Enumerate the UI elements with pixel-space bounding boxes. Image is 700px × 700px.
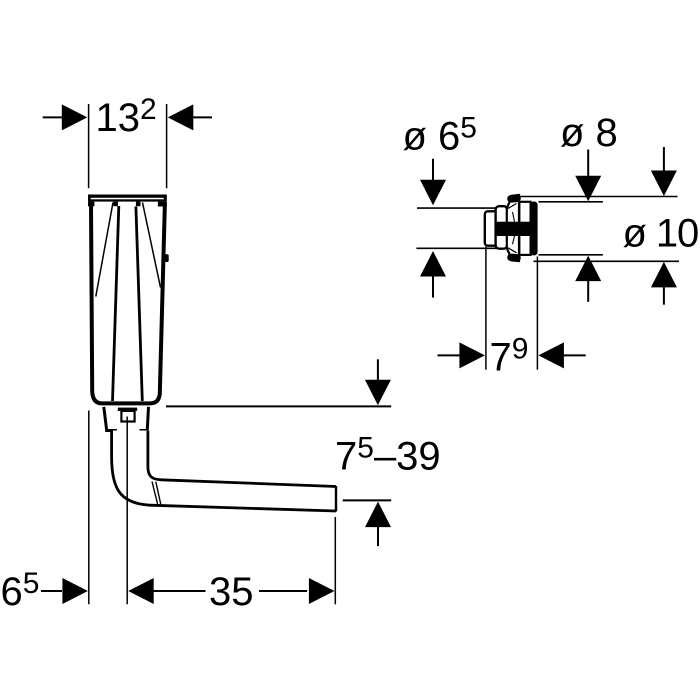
fitting disc	[530, 202, 537, 256]
fitting bell rib 4	[513, 236, 515, 244]
dia 8 bottom line	[539, 254, 603, 256]
dimension 75-39 down arrow	[365, 380, 391, 406]
dia 8 up arrow stem	[587, 281, 589, 302]
extension line cistern left	[88, 411, 90, 605]
svg-text:35: 35	[209, 570, 254, 614]
flush bend inner wall	[148, 431, 336, 487]
dimension 6-5 arrow	[62, 578, 88, 604]
cistern inner tab left	[113, 202, 118, 207]
svg-text:ø 10: ø 10	[623, 211, 699, 255]
dimension 7-9 right line	[563, 354, 585, 356]
dia 10 up arrow	[651, 262, 677, 288]
dimension 75-39 up arrow	[365, 502, 391, 527]
dimension 13-2 right line	[193, 116, 212, 118]
dimension 7-9 left extension line	[485, 247, 487, 370]
dia 8 down arrow	[575, 176, 601, 202]
fitting bell	[507, 195, 519, 261]
fitting bell top cap	[511, 195, 517, 203]
dimension 6-5 line	[41, 590, 62, 592]
dia 8 down arrow stem	[587, 150, 589, 177]
dimension 13-2 left arrow	[62, 104, 88, 130]
cistern inner tab right	[136, 202, 141, 207]
dimension 35 right line	[259, 590, 307, 592]
cistern interior tube left	[113, 206, 119, 401]
fitting bell bottom cap	[511, 254, 517, 262]
dimension 35 right arrow	[309, 578, 335, 604]
dia 10 up arrow stem	[663, 287, 665, 305]
dimension 75-39 bottom reference line	[343, 499, 392, 501]
cistern lid right lip	[158, 202, 167, 207]
fitting bell rib 2	[508, 248, 517, 253]
fitting centre band	[496, 222, 532, 236]
svg-text:75–39: 75–39	[335, 432, 441, 479]
dimension 75-39 down arrow stem	[377, 359, 379, 380]
cistern side clip	[165, 254, 169, 262]
cistern interior diagonal right	[143, 203, 161, 288]
dimension 13-2 right extension line	[166, 104, 168, 188]
dia 10 bottom line	[534, 260, 680, 262]
outlet funnel left	[104, 407, 107, 430]
flush bend fill	[112, 431, 336, 512]
dimension 7-9 right extension line	[536, 257, 538, 370]
cistern lid	[88, 195, 167, 202]
cistern interior diagonal left	[96, 203, 113, 297]
outlet shoulder right	[140, 429, 149, 432]
outlet stub	[121, 411, 134, 422]
dimension 13-2 left line	[43, 116, 63, 118]
dia 6-5 up arrow stem	[432, 276, 434, 297]
fitting washer	[519, 202, 530, 255]
dimension 13-2 right arrow	[168, 104, 194, 130]
dimension 7-9 left arrow	[459, 342, 485, 368]
flush bend outer wall	[112, 431, 336, 512]
extension line outlet centre	[126, 417, 128, 605]
dia 6-5 up arrow	[420, 251, 446, 277]
outlet flange bar	[118, 408, 137, 411]
dimension 7-9 left line	[438, 354, 460, 356]
fitting bell rib 1	[508, 204, 517, 209]
dia 8 up arrow	[575, 256, 601, 282]
fitting collar	[496, 206, 508, 249]
dimension 35 left line	[153, 590, 205, 592]
cistern interior tube right	[136, 207, 142, 402]
extension line pipe end	[334, 517, 336, 604]
dia 10 top line	[520, 196, 678, 198]
dia 6-5 bottom line	[416, 247, 496, 249]
outlet funnel right	[147, 407, 148, 430]
fitting small cylinder	[485, 211, 497, 245]
dia 8 top line	[539, 201, 603, 203]
dimension 13-2 left extension line	[88, 104, 90, 188]
dimension 7-9 right arrow	[538, 342, 564, 368]
dia 6-5 down arrow	[420, 180, 446, 206]
flush bend joint tick 2	[156, 482, 161, 505]
flush bend joint tick 1	[152, 482, 158, 505]
dia 10 down arrow stem	[663, 147, 665, 171]
flush bend end cap	[335, 486, 337, 512]
cistern body outline	[91, 203, 165, 403]
dia 6-5 top line	[417, 207, 497, 209]
dimension 35 left arrow	[128, 578, 154, 604]
dimension 75-39 up arrow stem	[377, 527, 379, 546]
dia 10 down arrow	[651, 171, 677, 197]
cistern lid left lip	[88, 202, 94, 207]
dimension 75-39 top reference line	[166, 405, 391, 407]
outlet shoulder left	[105, 429, 117, 432]
fitting bell rib 3	[513, 212, 515, 222]
svg-text:ø 8: ø 8	[560, 111, 618, 155]
dia 6-5 down arrow stem	[432, 159, 434, 180]
